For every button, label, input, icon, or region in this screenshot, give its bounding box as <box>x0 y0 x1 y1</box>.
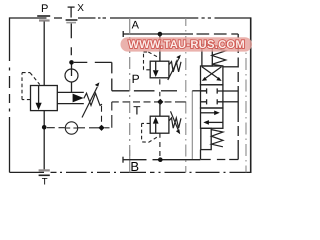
svg-text:X: X <box>77 3 84 14</box>
svg-text:T: T <box>42 176 48 187</box>
svg-text:P: P <box>132 72 140 86</box>
svg-text:T: T <box>133 104 141 118</box>
svg-text:P: P <box>41 3 48 15</box>
svg-text:WWW.TAU-RUS.COM: WWW.TAU-RUS.COM <box>128 39 245 51</box>
svg-text:A: A <box>132 19 140 31</box>
svg-text:B: B <box>130 159 139 174</box>
